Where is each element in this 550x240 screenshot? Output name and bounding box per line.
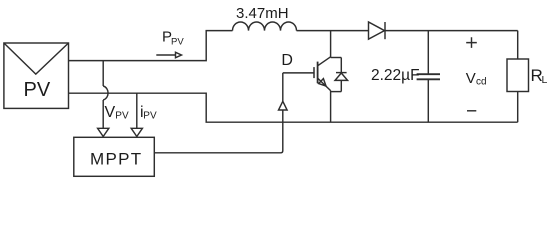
capacitor branch bottom wire — [427, 80, 429, 123]
IGBT gate lead — [283, 72, 314, 74]
V_PV arrowhead into MPPT — [98, 128, 109, 136]
diode D1 triangle — [369, 22, 385, 39]
svg-text:PV: PV — [143, 111, 157, 122]
inductor L 3.47mH — [233, 22, 297, 31]
V_PV sense wire lower — [102, 100, 104, 128]
PV panel chevron — [4, 43, 69, 74]
freewheel diode bottom link — [331, 91, 342, 93]
svg-text:MPPT: MPPT — [90, 149, 142, 168]
resistor RL box — [507, 59, 529, 92]
svg-text:L: L — [542, 74, 548, 86]
wire: top-right corner down to load — [517, 31, 519, 59]
IGBT emitter diagonal — [318, 78, 331, 91]
svg-text:PV: PV — [115, 111, 129, 122]
minus sign of Vcd — [467, 110, 476, 112]
IGBT gate bar — [313, 67, 315, 78]
freewheel diode cathode lead — [340, 58, 342, 73]
PV panel box — [4, 43, 69, 108]
freewheel diode triangle — [335, 73, 348, 80]
freewheel diode cathode bar — [336, 72, 347, 74]
freewheel diode anode lead — [340, 80, 342, 91]
IGBT emitter arrow — [319, 79, 326, 86]
IGBT collector diagonal — [318, 57, 331, 66]
svg-text:PV: PV — [171, 36, 184, 47]
svg-text:V: V — [105, 104, 116, 121]
wire: PV top output to inductor — [69, 31, 233, 61]
gate drive wire from MPPT — [154, 110, 282, 153]
svg-text:V: V — [466, 70, 476, 87]
gate drive arrowhead — [279, 101, 288, 110]
svg-text:PV: PV — [24, 79, 51, 101]
diode D1 cathode bar — [384, 22, 386, 39]
wire: inductor to diode anode — [297, 30, 369, 32]
capacitor C plates — [417, 74, 440, 79]
svg-text:2.22µF: 2.22µF — [371, 67, 420, 84]
P_PV arrow line — [156, 54, 175, 56]
IGBT collector wire — [330, 31, 332, 58]
plus sign of Vcd — [466, 37, 477, 48]
svg-text:3.47mH: 3.47mH — [236, 5, 289, 22]
V_PV sense wire upper — [102, 61, 104, 86]
MPPT controller box — [74, 137, 155, 176]
wire: diode to top-right corner — [385, 30, 518, 32]
i_PV arrowhead into MPPT — [131, 128, 142, 136]
svg-text:D: D — [281, 52, 293, 69]
IGBT body bar — [317, 62, 319, 84]
P_PV arrowhead — [176, 52, 182, 57]
freewheel diode top link — [331, 57, 342, 59]
svg-text:cd: cd — [476, 77, 487, 88]
V_PV sense wire hop over bottom wire — [103, 86, 108, 100]
IGBT emitter wire to bottom bus — [330, 91, 332, 123]
i_PV sense wire — [136, 93, 138, 128]
capacitor branch top wire — [427, 31, 429, 74]
wire: bottom bus with jog to PV bottom — [69, 93, 518, 122]
gate drive wire above arrow — [282, 73, 284, 101]
wire: load bottom to bottom bus — [517, 92, 519, 123]
